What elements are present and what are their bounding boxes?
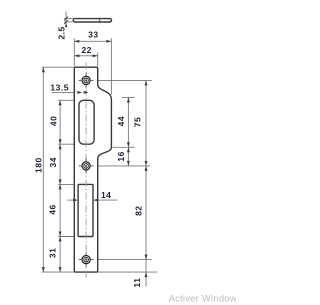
svg-text:33: 33 [88, 30, 98, 40]
svg-text:11: 11 [132, 278, 142, 288]
svg-text:Activer Windows: Activer Windows [169, 294, 236, 305]
svg-text:46: 46 [47, 204, 57, 214]
svg-text:2.5: 2.5 [56, 26, 66, 39]
svg-text:34: 34 [48, 157, 58, 167]
svg-text:22: 22 [81, 45, 91, 55]
svg-text:31: 31 [48, 248, 58, 258]
svg-text:13.5: 13.5 [50, 83, 69, 93]
svg-text:16: 16 [116, 151, 126, 161]
svg-text:44: 44 [116, 116, 126, 126]
svg-text:75: 75 [133, 117, 143, 127]
svg-text:40: 40 [48, 116, 58, 126]
svg-text:180: 180 [34, 157, 44, 173]
svg-text:14: 14 [101, 190, 111, 200]
svg-text:82: 82 [134, 205, 144, 215]
